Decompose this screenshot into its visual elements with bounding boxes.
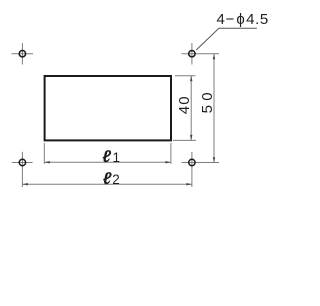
hole H3 (bottom-left) circle: [19, 159, 25, 165]
dim 50 arrow down: [213, 157, 216, 162]
dim l1 extension line right: [170, 143, 172, 164]
hole H4 (bottom-right) crosshair + extension lines for dim 50 and dim l2: [182, 152, 220, 187]
hole H2 (top-right) circle: [189, 51, 195, 57]
dim l1 arrow left: [44, 161, 50, 164]
svg-text:40: 40: [176, 96, 193, 114]
svg-text:4−ϕ4.5: 4−ϕ4.5: [217, 11, 269, 28]
dim l2 dimension line: [22, 183, 192, 185]
hole H3 (bottom-left) crosshair + extension line for dim l2: [12, 152, 33, 187]
svg-text:ℓ2: ℓ2: [103, 169, 120, 188]
dim l2 arrow right: [186, 183, 192, 186]
dim l1 dimension line: [44, 161, 171, 163]
hole H1 (top-left) crosshair: [12, 43, 34, 65]
dim 50 arrow up: [213, 54, 216, 60]
dim 40 extension line top: [175, 75, 196, 77]
dim l1 extension line left: [43, 143, 45, 164]
leader line for hole callout: [196, 28, 257, 50]
dim 40 dimension line: [190, 76, 192, 141]
svg-text:ℓ1: ℓ1: [102, 147, 120, 166]
plate outline rectangle: [45, 76, 171, 140]
dim 50 dimension line: [213, 54, 215, 163]
dim l2 arrow left: [22, 183, 28, 186]
dim 40 arrow down: [190, 135, 193, 141]
dim 40 arrow up: [190, 76, 193, 82]
dim l1 arrow right: [165, 161, 171, 164]
hole H1 (top-left) circle: [19, 51, 25, 57]
dim 40 extension line bottom: [173, 139, 196, 141]
hole H2 (top-right) crosshair + extension line for dim 50: [182, 43, 220, 65]
hole H4 (bottom-right) circle: [189, 159, 195, 165]
